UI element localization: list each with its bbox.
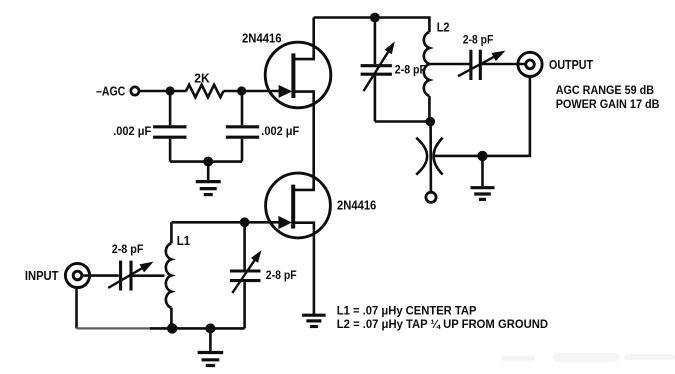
Q1 gate arrow <box>279 85 293 98</box>
C5 trimmer arrow <box>108 266 146 288</box>
svg-text:INPUT: INPUT <box>25 268 59 283</box>
svg-text:.002 μF: .002 μF <box>261 124 299 138</box>
svg-text:OUTPUT: OUTPUT <box>549 57 593 72</box>
Q1 source lead (to Q2 drain) <box>294 92 314 190</box>
svg-text:2-8 pF: 2-8 pF <box>266 268 297 282</box>
node: AGC junction left <box>166 86 175 95</box>
svg-text:2N4416: 2N4416 <box>337 198 376 212</box>
wire tank bottom <box>375 120 430 123</box>
Q1 channel bar <box>291 53 295 98</box>
wire cap bottoms <box>170 160 242 163</box>
wire C5 to L1 tap <box>132 274 164 277</box>
Q1 drain lead <box>294 18 314 60</box>
node: output ground junction <box>477 151 487 161</box>
svg-text:2K: 2K <box>194 72 209 86</box>
ground G3 (Q2 source) <box>313 312 316 315</box>
wire -AGC input lead <box>140 90 171 93</box>
ground G1 <box>207 162 210 181</box>
wire output jack down and left <box>435 76 530 156</box>
wire bottom return <box>150 327 245 330</box>
capacitor C5 2-8 pF series input <box>119 261 122 291</box>
transistor Q2 2N4416 body <box>266 173 331 238</box>
svg-text:L1: L1 <box>177 234 190 248</box>
wire bottom return (faded segment) <box>77 327 153 329</box>
capacitor C2 .002 uF (right) <box>241 94 244 125</box>
C3 trimmer arrow <box>364 48 391 91</box>
wire L2 tap <box>429 63 470 66</box>
wire jack to C5 <box>81 274 119 277</box>
ground G2 <box>481 156 484 186</box>
capacitor C6 2-8 pF shunt input tank <box>243 222 246 269</box>
resistor R1 2K <box>186 85 224 97</box>
terminal -AGC open circle <box>131 87 139 95</box>
wire C4 to output jack <box>481 63 527 66</box>
C6 trimmer arrow <box>232 256 257 293</box>
node: gate line junction <box>240 217 250 227</box>
node: AGC junction right <box>237 86 246 95</box>
inductor L2 <box>424 32 430 96</box>
wire gate lead Q1 <box>242 90 280 93</box>
svg-text:–AGC: –AGC <box>96 84 126 99</box>
Q2 gate arrow <box>278 216 292 229</box>
svg-text:2-8 pF: 2-8 pF <box>463 33 494 47</box>
svg-text:2N4416: 2N4416 <box>242 32 282 46</box>
output jack J2 <box>518 52 542 76</box>
wire top rail <box>314 18 430 33</box>
transistor Q1 2N4416 body <box>265 42 331 108</box>
node: bottom ground junction <box>205 323 215 333</box>
wire L2 bottom to terminal <box>429 122 432 192</box>
svg-text:2-8 pF: 2-8 pF <box>395 63 426 77</box>
wire L1 top to Q2 gate <box>171 221 280 224</box>
terminal open circle below L2 <box>426 192 436 202</box>
svg-text:AGC RANGE 59 dB: AGC RANGE 59 dB <box>556 83 655 97</box>
ground G4 <box>209 328 212 351</box>
svg-text:L1 = .07 μHy CENTER TAP: L1 = .07 μHy CENTER TAP <box>337 304 477 318</box>
capacitor C1 .002 uF (left) <box>169 91 172 125</box>
input jack J1 <box>65 263 89 287</box>
wire input jack drop <box>75 287 78 329</box>
node: L2 bottom junction <box>426 117 436 127</box>
svg-text:L2 = .07 μHy TAP ¼ UP FROM GRO: L2 = .07 μHy TAP ¼ UP FROM GROUND <box>337 317 549 331</box>
node: L1 bottom <box>167 323 177 333</box>
capacitor C4 2-8 pF series output <box>469 50 472 80</box>
coax coupling arcs at L2 cold end <box>416 138 427 175</box>
Q2 source lead <box>294 223 314 314</box>
svg-text:2-8 pF: 2-8 pF <box>112 242 144 256</box>
node: top rail junction <box>370 13 380 23</box>
svg-text:POWER GAIN 17 dB: POWER GAIN 17 dB <box>556 97 660 111</box>
inductor L1 <box>170 222 173 243</box>
wire resistor to node <box>224 90 242 93</box>
capacitor C3 2-8 pF tank (shunt) <box>374 18 377 65</box>
svg-text:L2: L2 <box>437 21 450 35</box>
Q2 drain lead <box>294 186 314 190</box>
node: cap bottom junction <box>203 157 213 167</box>
svg-text:.002 μF: .002 μF <box>113 124 151 138</box>
wire to resistor <box>170 90 187 93</box>
C4 trimmer arrow <box>458 54 498 76</box>
Q2 channel bar <box>291 185 295 229</box>
